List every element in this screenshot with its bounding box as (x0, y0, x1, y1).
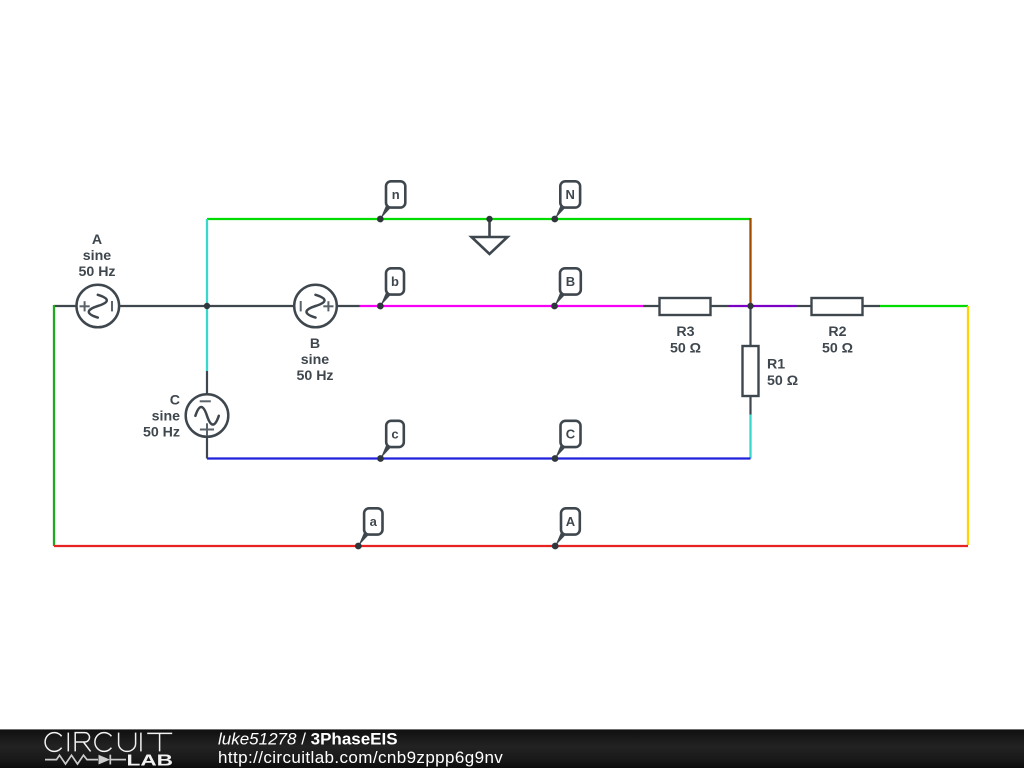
svg-text:B: B (310, 336, 320, 352)
node flag B (551, 268, 581, 309)
junction node center (R1/R3/R2/brown) (747, 303, 753, 309)
node flag n (377, 181, 405, 222)
label R2 50 ohm (822, 324, 853, 357)
wire: dark green left vertical (53, 305, 55, 546)
wire: gray stub R1 top (749, 306, 751, 346)
svg-text:50 Hz: 50 Hz (296, 368, 333, 384)
node flag b (377, 268, 404, 309)
svg-text:c: c (391, 427, 398, 442)
svg-text:50 Hz: 50 Hz (143, 425, 180, 441)
footer bar (0, 729, 1024, 768)
wire: gray stub R1 bottom (749, 396, 751, 415)
svg-text:luke51278 / 3PhaseEIS: luke51278 / 3PhaseEIS (218, 730, 398, 749)
wire: gray stub above source C (206, 371, 208, 394)
wire: red bottom rail a-A (54, 545, 968, 547)
wire: blue phase c rail (207, 457, 751, 459)
svg-text:http://circuitlab.com/cnb9zppp: http://circuitlab.com/cnb9zppp6g9nv (218, 748, 503, 767)
node flag C (552, 421, 581, 462)
svg-text:A: A (92, 232, 102, 248)
node flag c (377, 421, 404, 462)
wire: purple segment through center junction (729, 305, 797, 307)
node flag N (551, 181, 580, 222)
svg-text:50 Ω: 50 Ω (670, 341, 701, 357)
svg-text:sine: sine (83, 248, 111, 264)
wire: brown vertical from top rail down to center junction (749, 218, 751, 306)
svg-text:B: B (566, 274, 575, 289)
ground symbol (472, 216, 508, 254)
label R1 50 ohm (767, 357, 798, 390)
label R3 50 ohm (670, 324, 701, 357)
footer logo resistor-diode line (45, 755, 126, 765)
junction node at A/B rail and cyan (204, 303, 210, 309)
wire: gray stub left of R3 (643, 305, 660, 307)
label source B (296, 336, 333, 384)
svg-text:sine: sine (152, 409, 180, 425)
svg-text:R3: R3 (676, 324, 694, 340)
wire: gray horizontal between source A and source B (119, 305, 294, 307)
svg-text:50 Ω: 50 Ω (767, 373, 798, 389)
svg-text:sine: sine (301, 352, 329, 368)
source V_B (circle with rotated sine, + right) (294, 285, 337, 328)
wire: magenta phase b (360, 305, 644, 307)
svg-text:a: a (370, 514, 378, 529)
svg-text:50 Hz: 50 Hz (78, 264, 115, 280)
wire: cyan below R1 (749, 415, 751, 459)
node flag A (552, 508, 580, 549)
svg-text:n: n (392, 187, 400, 202)
wire: gray stub below source C (206, 437, 208, 459)
svg-text:50 Ω: 50 Ω (822, 341, 853, 357)
resistor R2 (812, 298, 863, 315)
label source A (78, 232, 115, 280)
wire: gray stub right of R2 (862, 305, 880, 307)
wire: gray stub right of source B (337, 305, 360, 307)
svg-text:C: C (170, 393, 180, 409)
wire: gray stub right of R3 (710, 305, 729, 307)
footer logo CIRCUIT (thin stroked letters) (45, 733, 172, 752)
svg-text:R2: R2 (828, 324, 846, 340)
source V_C (vertical circle, - top + bottom) (186, 394, 229, 437)
resistor R3 (660, 298, 711, 315)
wire: green segment right of R2 (880, 305, 968, 307)
svg-text:R1: R1 (767, 357, 785, 373)
wire: yellow right vertical (967, 306, 969, 545)
svg-text:b: b (391, 274, 399, 289)
wire: gray stub left of R2 (797, 305, 813, 307)
svg-text:A: A (566, 514, 576, 529)
wire: gray stub left of source A (54, 305, 76, 307)
source V_A (circle with rotated sine, + left) (77, 285, 120, 328)
svg-text:N: N (566, 187, 575, 202)
svg-text:C: C (566, 427, 576, 442)
resistor R1 (vertical) (743, 346, 759, 396)
node flag a (355, 508, 383, 549)
wire: neutral green top rail n-N (207, 218, 751, 220)
label source C (143, 393, 180, 441)
wire: cyan vertical from top rail down through node to source C (206, 219, 208, 371)
svg-text:LAB: LAB (127, 753, 174, 768)
